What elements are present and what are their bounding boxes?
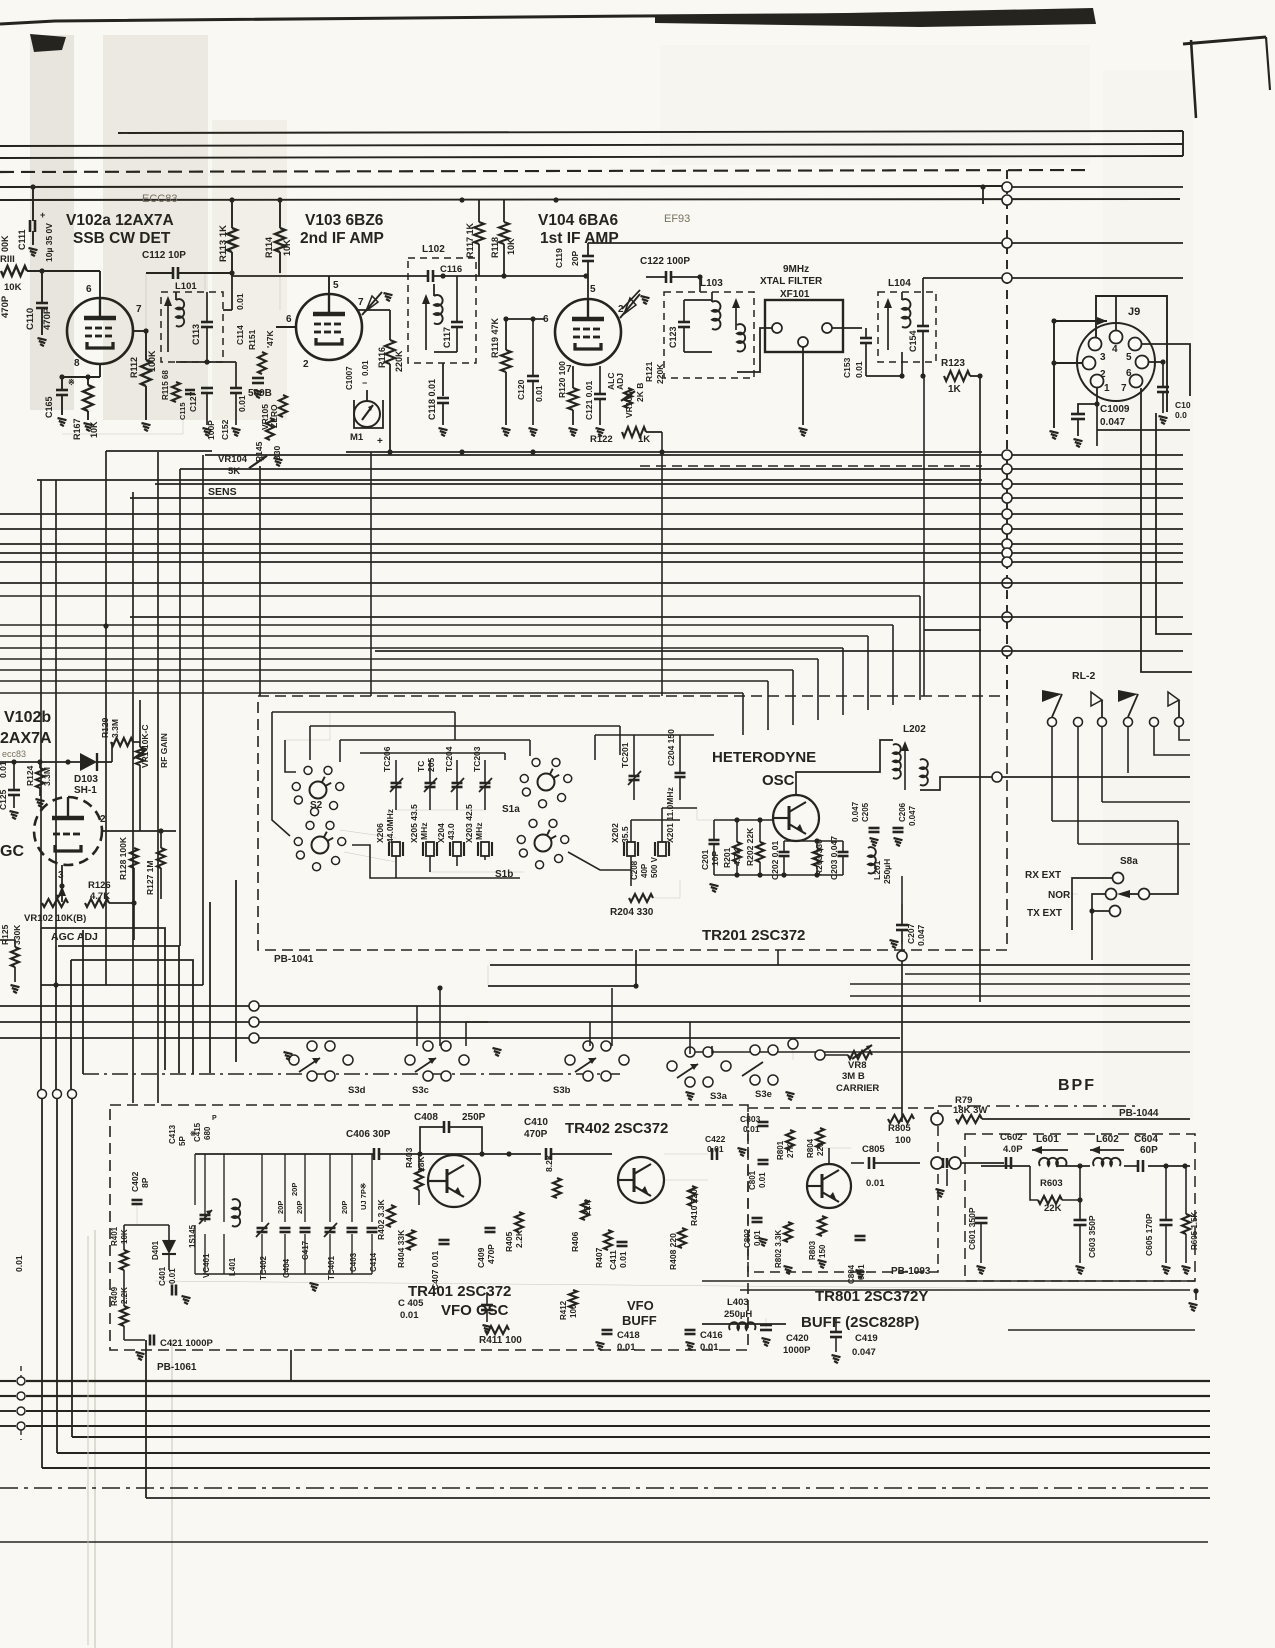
vertical dashed feed line x1007 xyxy=(1006,170,1008,700)
meter M1 xyxy=(354,401,380,427)
svg-text:10K: 10K xyxy=(506,238,516,255)
arrow in L104 xyxy=(887,302,889,350)
ground below C207 xyxy=(890,940,899,942)
capacitor C204 150 xyxy=(675,772,686,775)
svg-text:R122: R122 xyxy=(590,434,613,445)
XF101 terminal bottom xyxy=(798,337,808,347)
wire right bus bends xyxy=(1156,413,1192,634)
svg-text:C204 150: C204 150 xyxy=(666,729,676,766)
svg-text:L201: L201 xyxy=(872,860,882,880)
ground C420 xyxy=(762,1338,771,1340)
wire R111 to node xyxy=(27,270,52,272)
bottom bus line 1381 xyxy=(0,1380,16,1382)
svg-text:RIII: RIII xyxy=(0,254,15,265)
wire corner web 1 xyxy=(40,928,42,1089)
TR801 shield box PB-1093 xyxy=(748,1108,938,1272)
svg-text:C207: C207 xyxy=(906,923,916,944)
wire into BPF xyxy=(961,1162,1004,1164)
wire S8a left xyxy=(1072,878,1112,894)
ground S3e xyxy=(786,1092,795,1094)
capacitor C419 0.047 xyxy=(830,1331,842,1334)
wire R123 right xyxy=(970,375,980,377)
wire J9 frame top xyxy=(1096,296,1167,412)
svg-text:MHz: MHz xyxy=(419,823,429,840)
svg-text:C117: C117 xyxy=(442,327,452,348)
wire J9 pin1 down long xyxy=(1096,404,1098,446)
capacitor C165 xyxy=(56,389,68,392)
rotary switch S2 wafer B xyxy=(312,837,329,854)
capacitor C201 10P xyxy=(709,839,720,842)
svg-text:40P: 40P xyxy=(640,863,649,878)
ground below XF101 xyxy=(799,428,808,430)
svg-text:43.0: 43.0 xyxy=(446,823,456,840)
resistor R203 330 xyxy=(813,848,821,866)
capacitor C421 1000P xyxy=(149,1335,152,1346)
capacitor C801 0.01 xyxy=(758,1159,769,1162)
resistor R128 100K xyxy=(130,848,138,868)
wire S2 to crystal rail xyxy=(344,852,396,862)
svg-text:20P: 20P xyxy=(340,1201,349,1214)
svg-text:C202 0.01: C202 0.01 xyxy=(770,841,780,880)
wire V102b lower web xyxy=(0,939,15,941)
svg-text:L101: L101 xyxy=(175,281,197,292)
capacitor C125 0.01 xyxy=(8,789,20,792)
svg-text:SH-1: SH-1 xyxy=(74,785,97,796)
resistor R204 330 xyxy=(629,894,653,902)
inductor L102 coil xyxy=(434,295,443,324)
wire top bus 5 supply rail xyxy=(0,199,1180,200)
svg-text:0.01: 0.01 xyxy=(168,1268,177,1284)
resistor R79 18K 3W xyxy=(956,1115,982,1123)
capacitor C414 UJ 7P xyxy=(367,1227,378,1230)
svg-text:VR101: VR101 xyxy=(624,392,634,418)
capacitor C805 0.01 xyxy=(868,1157,871,1169)
svg-text:00K: 00K xyxy=(0,235,10,252)
resistor R409 2.2K xyxy=(120,1306,128,1326)
svg-text:0.01: 0.01 xyxy=(235,293,245,310)
bottom bus line 1411 xyxy=(0,1410,16,1412)
trimmer TC204 xyxy=(452,782,463,785)
wire L104 to rail xyxy=(901,352,903,376)
wire y243 feed xyxy=(588,242,1002,244)
resistor R408 220 xyxy=(678,1228,686,1248)
wire x983 jog xyxy=(982,187,984,204)
svg-text:3.3M: 3.3M xyxy=(42,767,52,786)
svg-text:470P: 470P xyxy=(486,1244,496,1264)
wire corner web 3 xyxy=(70,960,72,1089)
svg-text:R121: R121 xyxy=(644,361,654,382)
svg-text:R408 220: R408 220 xyxy=(668,1233,678,1270)
wire L102 down to C118 xyxy=(442,363,444,396)
svg-text:C802: C802 xyxy=(743,1228,752,1248)
svg-text:S2: S2 xyxy=(310,800,323,811)
svg-text:C420: C420 xyxy=(786,1333,809,1344)
svg-text:C120: C120 xyxy=(516,379,526,400)
capacitor C118 0.01 xyxy=(437,397,449,400)
svg-text:R202 22K: R202 22K xyxy=(745,827,755,866)
pot VR102 10KB xyxy=(42,899,68,907)
wire meter top xyxy=(366,390,368,401)
svg-text:L601: L601 xyxy=(1036,1134,1059,1145)
resistor R127 1M xyxy=(157,848,165,868)
svg-text:C111: C111 xyxy=(17,229,27,250)
svg-text:C406 30P: C406 30P xyxy=(346,1129,391,1140)
crystal filter XF101 box xyxy=(765,300,843,352)
svg-text:C410: C410 xyxy=(524,1117,548,1128)
bottom rail VFO xyxy=(195,1273,372,1275)
trimmer TC201 xyxy=(629,775,640,778)
left vertical wires center web xyxy=(40,480,42,928)
svg-text:1K: 1K xyxy=(948,384,962,395)
svg-text:1K: 1K xyxy=(638,434,650,445)
svg-text:TC206: TC206 xyxy=(382,746,392,772)
svg-text:RF GAIN: RF GAIN xyxy=(159,733,169,768)
capacitor C1010 xyxy=(1157,386,1169,389)
svg-text:60P: 60P xyxy=(1140,1145,1158,1156)
capacitor C407 0.01 xyxy=(439,1239,450,1242)
capacitor C112 xyxy=(172,267,175,279)
svg-text:C402: C402 xyxy=(130,1171,140,1192)
wire top-left web box xyxy=(106,450,212,452)
svg-text:L403: L403 xyxy=(727,1297,749,1308)
inductor L601 xyxy=(1039,1158,1066,1166)
ground R604 xyxy=(1182,1266,1191,1268)
svg-text:250µH: 250µH xyxy=(724,1309,752,1320)
ground below C165 xyxy=(58,418,67,420)
wire y278 right extension xyxy=(1012,277,1183,279)
resistor R114 10K xyxy=(275,228,285,252)
svg-text:5: 5 xyxy=(1126,352,1132,363)
svg-text:250P: 250P xyxy=(462,1112,486,1123)
arrow in L103 xyxy=(735,302,737,330)
trimmer TC203 xyxy=(480,782,491,785)
resistor R410 220 xyxy=(688,1186,696,1206)
capacitor C408 xyxy=(443,1121,446,1133)
capacitor C1009 0.047 xyxy=(1071,413,1085,416)
svg-text:C121 0.01: C121 0.01 xyxy=(584,381,594,420)
capacitor C420 1000P xyxy=(760,1324,772,1327)
arrow L602 xyxy=(1090,1149,1124,1151)
svg-text:C206: C206 xyxy=(898,802,907,822)
svg-text:2: 2 xyxy=(100,814,106,825)
svg-text:C421 1000P: C421 1000P xyxy=(160,1338,213,1349)
svg-text:R125: R125 xyxy=(0,924,10,945)
crystal X206 44.0MHz xyxy=(392,842,400,856)
variable cap VC401 xyxy=(200,1214,211,1217)
svg-text:330K: 330K xyxy=(12,924,22,945)
wire R79 right xyxy=(982,1118,1190,1120)
inductor L102 shield box xyxy=(408,258,476,363)
svg-text:0.01: 0.01 xyxy=(400,1310,419,1321)
svg-text:MHz: MHz xyxy=(474,823,484,840)
ground S3c mid xyxy=(493,1048,502,1050)
svg-text:'47K: '47K xyxy=(265,330,275,348)
svg-text:BUFF (2SC828P): BUFF (2SC828P) xyxy=(801,1314,919,1331)
wire R113 node down xyxy=(231,273,233,310)
ground below C127 xyxy=(203,428,212,430)
svg-text:3: 3 xyxy=(58,870,64,881)
ground C401 xyxy=(182,1296,191,1298)
svg-text:5P: 5P xyxy=(178,1136,187,1146)
svg-text:9MHz: 9MHz xyxy=(783,264,809,275)
capacitor C604 xyxy=(1137,1160,1140,1172)
wire V102b pin3 cathode xyxy=(61,865,63,886)
resistor R803 150 xyxy=(818,1216,826,1236)
dash-dot line y1074 xyxy=(83,1073,620,1075)
wire corner web 2 xyxy=(55,946,57,1089)
wire corner y928 xyxy=(41,928,165,1070)
bottom bus line 1498 xyxy=(146,1497,1210,1499)
svg-text:+: + xyxy=(377,436,383,447)
capacitor C122 xyxy=(665,271,668,283)
wire V103 pin7 to R116 xyxy=(356,309,390,311)
wire V104 grid node xyxy=(506,318,545,320)
svg-text:C116: C116 xyxy=(440,264,462,275)
svg-text:C125: C125 xyxy=(0,789,8,810)
capacitor C409 470P xyxy=(485,1227,496,1230)
resistor R122 1K xyxy=(622,427,646,437)
svg-text:R410 220: R410 220 xyxy=(689,1189,699,1226)
svg-text:S3c: S3c xyxy=(412,1085,429,1096)
arrow in L101 xyxy=(167,300,169,352)
left feedthrough circles bottom xyxy=(38,1090,47,1099)
svg-text:0.01: 0.01 xyxy=(758,1172,767,1188)
svg-text:V104 6BA6: V104 6BA6 xyxy=(538,212,619,229)
J9 pin 1 xyxy=(1091,375,1104,388)
svg-text:J9: J9 xyxy=(1128,306,1140,318)
XF101 terminal left xyxy=(772,323,782,333)
ground below R119 xyxy=(502,428,511,430)
inductor L201 250uH xyxy=(868,847,876,873)
resistor R406 22K xyxy=(581,1200,589,1220)
crystal X201 11.0MHz xyxy=(658,842,666,856)
svg-text:C153: C153 xyxy=(842,357,852,378)
scan edge top black band right xyxy=(655,8,1096,27)
wire top dashed bus xyxy=(0,170,1092,172)
svg-text:2K B: 2K B xyxy=(635,383,645,402)
VFO shield box PB-1061 xyxy=(110,1105,748,1350)
resistor R119 47K xyxy=(501,350,511,372)
svg-text:R401: R401 xyxy=(110,1226,119,1246)
bottom bus line 1426 xyxy=(0,1425,16,1427)
svg-text:C411: C411 xyxy=(608,1250,618,1270)
capacitor C205 047 xyxy=(869,827,880,830)
wire J9 pin4 drop xyxy=(1115,296,1117,331)
svg-text:OSC: OSC xyxy=(762,772,795,789)
resistor R604 xyxy=(1182,1214,1190,1234)
dash line right of TR801 box xyxy=(938,1105,1140,1107)
svg-text:C604: C604 xyxy=(1134,1134,1158,1145)
wire heterodyne gnd rail xyxy=(714,874,843,876)
svg-text:C418: C418 xyxy=(617,1330,640,1341)
svg-text:3M B: 3M B xyxy=(842,1071,865,1082)
J9 pin 4 xyxy=(1110,331,1123,344)
svg-text:4.7K: 4.7K xyxy=(90,891,110,902)
resistor R405 2.2K xyxy=(515,1212,523,1232)
svg-text:R605 1.5K: R605 1.5K xyxy=(1190,1212,1199,1250)
svg-text:2AX7A: 2AX7A xyxy=(0,730,52,747)
svg-text:100K: 100K xyxy=(147,350,157,372)
svg-text:M1: M1 xyxy=(350,432,364,443)
inductor L202 coil xyxy=(893,744,901,779)
ground S3d xyxy=(284,1052,293,1054)
wire y243 right extension xyxy=(1012,242,1183,244)
J9 pin left xyxy=(1083,357,1096,370)
svg-text:C603 350P: C603 350P xyxy=(1087,1215,1097,1258)
svg-text:D401: D401 xyxy=(151,1240,160,1260)
svg-text:C403: C403 xyxy=(349,1252,358,1272)
capacitor C121 0.01 xyxy=(594,393,606,396)
resistor R111 10K xyxy=(1,266,27,276)
svg-text:0.047: 0.047 xyxy=(852,1347,876,1358)
svg-text:C413: C413 xyxy=(168,1124,177,1144)
svg-text:TC: TC xyxy=(416,761,426,772)
wire top bus 1 xyxy=(118,131,1183,133)
svg-text:27K: 27K xyxy=(786,1143,795,1158)
svg-text:R805: R805 xyxy=(888,1123,911,1134)
svg-text:D103: D103 xyxy=(74,774,98,785)
wire VFO left verticals xyxy=(123,1225,125,1250)
wire VR8 left contact xyxy=(815,1050,825,1060)
svg-text:220K: 220K xyxy=(394,350,404,372)
bottom bus line 1453 xyxy=(57,1452,1210,1454)
wire second rail dashed xyxy=(640,465,982,467)
svg-text:TR201 2SC372: TR201 2SC372 xyxy=(702,927,805,944)
wire right bend from bus1 xyxy=(1182,131,1184,156)
svg-text:20P: 20P xyxy=(276,1201,285,1214)
ground below C120 xyxy=(529,428,538,430)
bus lower lines xyxy=(0,582,1183,584)
svg-text:TR401 2SC372: TR401 2SC372 xyxy=(408,1283,511,1300)
ground below C121 xyxy=(596,428,605,430)
wire J9 pin left lead xyxy=(1054,362,1083,364)
J9 pin right xyxy=(1136,356,1149,369)
svg-text:R204 330: R204 330 xyxy=(610,907,654,918)
capacitor C411 0.01 xyxy=(617,1241,628,1244)
resistor R802 3.3K xyxy=(784,1222,792,1242)
ground C419 xyxy=(832,1355,841,1357)
capacitor C605 170P xyxy=(1160,1219,1173,1222)
resistor R167 10K xyxy=(83,385,93,411)
svg-text:R118: R118 xyxy=(490,237,500,258)
svg-text:−: − xyxy=(362,378,367,388)
resistor R603 22K xyxy=(1038,1196,1062,1204)
capacitor C207 0.047 xyxy=(896,924,908,927)
arrow L601 xyxy=(1032,1149,1068,1151)
svg-text:0.01: 0.01 xyxy=(700,1342,719,1353)
wire relay drops xyxy=(1051,727,1053,821)
J9 pin 3 xyxy=(1089,338,1102,351)
wire TR201 collector to L202 xyxy=(796,740,893,795)
grounds TR801 xyxy=(759,1238,768,1240)
svg-text:C113: C113 xyxy=(191,324,201,345)
capacitor C119 20P xyxy=(582,255,594,258)
svg-text:C602: C602 xyxy=(1000,1132,1023,1143)
wire top bus 3 xyxy=(0,156,1183,158)
wire L201 down xyxy=(901,876,903,904)
svg-text:+: + xyxy=(40,210,45,220)
ground below R120 xyxy=(569,428,578,430)
capacitor C406 xyxy=(373,1148,376,1160)
svg-text:18K: 18K xyxy=(416,1156,426,1172)
switch S8a wiper xyxy=(1139,889,1150,900)
capacitor C422 0.01 xyxy=(711,1148,714,1160)
svg-text:X203 42.5: X203 42.5 xyxy=(464,804,474,843)
ground VFO rail xyxy=(310,1283,319,1285)
wire J9 pin right lead xyxy=(1148,361,1163,363)
wire crystals top rail xyxy=(396,809,485,811)
switch S8a TX contact xyxy=(1110,906,1121,917)
svg-text:C208: C208 xyxy=(630,860,639,880)
svg-text:S3a: S3a xyxy=(710,1091,728,1102)
relay RL-2 contact 2 xyxy=(1074,718,1083,727)
svg-text:C401: C401 xyxy=(158,1266,167,1286)
capacitor C113 xyxy=(201,321,213,324)
inductor L104 shield box xyxy=(878,292,936,362)
svg-text:2: 2 xyxy=(303,359,309,370)
svg-text:C419: C419 xyxy=(855,1333,878,1344)
wire 1330 line right xyxy=(1008,1329,1195,1331)
svg-text:C165: C165 xyxy=(44,396,54,418)
svg-text:R127 1M: R127 1M xyxy=(145,861,155,896)
transistor TR201 xyxy=(773,795,819,841)
relay RL-2 contact 1 xyxy=(1048,718,1057,727)
bottom dash-dot line 1488 xyxy=(0,1487,1210,1489)
capacitor C123 xyxy=(678,321,690,324)
svg-text:TC401: TC401 xyxy=(327,1255,336,1280)
svg-text:10K: 10K xyxy=(282,239,292,256)
pot VR105 ZERO xyxy=(279,395,287,417)
svg-text:C201: C201 xyxy=(700,849,710,870)
wire C122 xyxy=(622,290,640,309)
svg-text:R117 1K: R117 1K xyxy=(465,222,475,258)
rotary switch S1b xyxy=(535,835,552,852)
svg-text:100: 100 xyxy=(895,1135,911,1146)
capacitor C116 xyxy=(427,270,430,282)
trimmer TC402 xyxy=(257,1227,268,1230)
svg-text:BPF: BPF xyxy=(1058,1077,1096,1094)
svg-text:C119: C119 xyxy=(554,248,564,268)
svg-text:S8a: S8a xyxy=(1120,856,1138,867)
svg-text:S3d: S3d xyxy=(348,1085,366,1096)
node supply junctions xyxy=(30,184,35,189)
svg-text:20P: 20P xyxy=(295,1201,304,1214)
svg-text:C112 10P: C112 10P xyxy=(142,250,186,261)
scan shading left strip xyxy=(30,35,74,410)
fold line bottom left xyxy=(94,1230,96,1648)
svg-text:C409: C409 xyxy=(476,1247,486,1268)
wire J9 left bracket xyxy=(1053,321,1055,428)
ground below C111 xyxy=(29,248,38,250)
wire het osc to wafer xyxy=(697,808,714,820)
svg-text:ECC83: ECC83 xyxy=(142,193,177,205)
ground below C118 xyxy=(439,428,448,430)
bottom staircase verticals xyxy=(145,1340,147,1498)
svg-text:X202: X202 xyxy=(610,823,620,843)
svg-text:VFO: VFO xyxy=(627,1298,654,1313)
feedthrough circles on dashed line xyxy=(1002,182,1012,192)
svg-text:R126: R126 xyxy=(88,880,111,891)
svg-text:0.01: 0.01 xyxy=(707,1144,724,1154)
diode D401 xyxy=(162,1240,176,1254)
svg-text:R112: R112 xyxy=(129,357,139,378)
relay RL-2 contact 3 xyxy=(1098,718,1107,727)
inductor L103 secondary coil xyxy=(737,324,745,351)
svg-text:18K 3W: 18K 3W xyxy=(953,1105,987,1116)
svg-text:0.01: 0.01 xyxy=(361,360,370,376)
svg-text:C122 100P: C122 100P xyxy=(640,256,690,267)
ground below C1009 xyxy=(1074,439,1083,441)
